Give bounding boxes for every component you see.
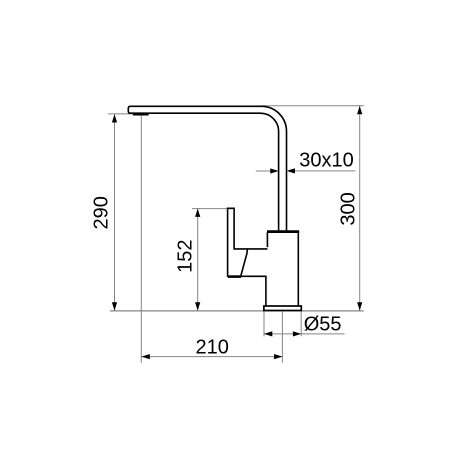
extension line top of 290	[108, 113, 133, 115]
dimension line 210	[142, 356, 283, 358]
base flange	[264, 306, 301, 311]
svg-text:290: 290	[90, 196, 112, 229]
arrow 30x10 right (points left at pipe)	[287, 168, 295, 173]
leader line 30x10 left	[256, 170, 272, 172]
body right edge	[297, 232, 299, 306]
dimension line 300	[359, 106, 361, 310]
handle bottom bold lip	[228, 275, 241, 278]
aerator under spout left end	[133, 113, 149, 116]
arrow 290 top	[112, 114, 117, 122]
arrow 290 bottom	[112, 302, 117, 310]
extension line top of 300	[262, 105, 364, 107]
arrow 152 bottom	[195, 302, 200, 310]
extension line top of 152	[192, 208, 228, 210]
svg-text:Ø55: Ø55	[304, 313, 342, 335]
arrow 300 bottom	[357, 302, 362, 310]
extension line base left (for diameter 55)	[263, 312, 265, 337]
svg-text:300: 300	[338, 192, 360, 225]
arrow 210 right (points right)	[274, 354, 282, 359]
extension line under spout left end (for 210)	[140, 115, 142, 363]
leader line 30x10 right	[293, 170, 355, 172]
extension line base right (for diameter 55)	[300, 312, 302, 337]
dimension line 290	[114, 115, 116, 311]
handle grip and connector outline	[228, 208, 268, 306]
arrow 300 top	[357, 106, 362, 114]
arrow 210 left (points left)	[142, 354, 150, 359]
arrow d55 right (points right)	[293, 331, 301, 336]
arrow 30x10 left (points right at pipe)	[270, 168, 278, 173]
arrow d55 left (points left)	[264, 331, 272, 336]
svg-text:210: 210	[196, 336, 229, 358]
svg-text:152: 152	[174, 240, 196, 273]
extension line base centerline	[281, 311, 283, 363]
svg-text:30x10: 30x10	[299, 149, 354, 171]
dimension line 152	[197, 209, 199, 311]
lever diagonal edge	[241, 249, 248, 276]
arrow 152 top	[195, 209, 200, 217]
ground baseline	[110, 310, 364, 312]
dimension line diameter 55	[264, 333, 345, 335]
body top cap (bold)	[267, 230, 299, 233]
body upper left edge	[266, 232, 268, 247]
spout and riser pipe outline	[128, 106, 286, 231]
